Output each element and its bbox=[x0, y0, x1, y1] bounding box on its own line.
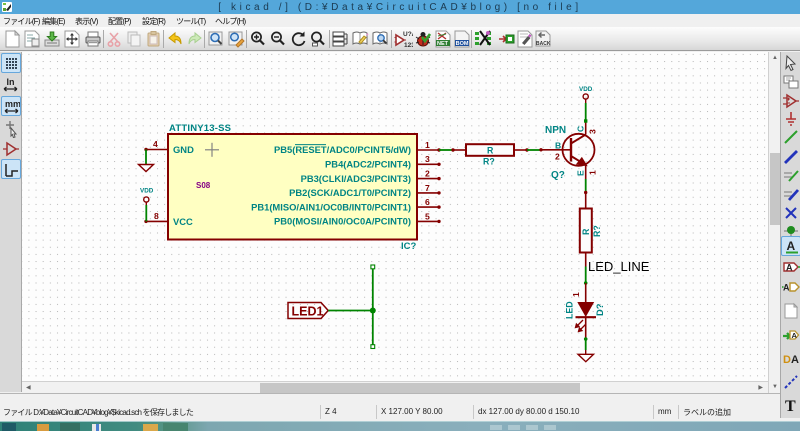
wire pin1 to R1 bbox=[439, 149, 453, 151]
junction bbox=[370, 308, 376, 314]
svg-text:LED1: LED1 bbox=[292, 305, 324, 319]
wire VDD to collector bbox=[585, 103, 587, 121]
ground PWR1 at pin4 bbox=[145, 150, 147, 165]
svg-text:NPN: NPN bbox=[545, 125, 566, 136]
svg-text:PB1(MISO/AIN1/OC0B/INT0/PCINT1: PB1(MISO/AIN1/OC0B/INT0/PCINT1) bbox=[251, 201, 411, 212]
svg-text:3: 3 bbox=[425, 154, 430, 164]
svg-text:A: A bbox=[792, 331, 798, 340]
left toolbar bbox=[0, 52, 22, 392]
IC U1 ATTINY13-SS body bbox=[168, 134, 417, 240]
wire VDD to pin8 bbox=[145, 205, 147, 221]
svg-text:PB5(RESET/ADC0/PCINT5/dW): PB5(RESET/ADC0/PCINT5/dW) bbox=[274, 144, 411, 155]
svg-text:D: D bbox=[783, 354, 791, 366]
wire LED1 to vertical net bbox=[328, 310, 373, 312]
svg-text:1: 1 bbox=[425, 140, 430, 150]
svg-text:2: 2 bbox=[555, 152, 560, 162]
svg-text:LED_LINE: LED_LINE bbox=[588, 259, 650, 274]
svg-text:123: 123 bbox=[404, 42, 413, 49]
svg-text:Q?: Q? bbox=[551, 170, 565, 181]
svg-text:B: B bbox=[555, 141, 561, 151]
svg-text:IC?: IC? bbox=[401, 241, 417, 252]
svg-text:A: A bbox=[786, 263, 793, 273]
RESET overline bbox=[295, 144, 326, 146]
pin 4 (GND) bbox=[146, 149, 168, 151]
svg-text:PB3(CLKI/ADC3/PCINT3): PB3(CLKI/ADC3/PCINT3) bbox=[301, 173, 411, 184]
resistor R2 body bbox=[580, 209, 592, 253]
svg-text:LED: LED bbox=[565, 301, 575, 319]
svg-text:5: 5 bbox=[425, 211, 430, 221]
title bar bbox=[0, 0, 800, 14]
transistor Q1 NPN bbox=[541, 121, 595, 179]
right pins 1,3,2,7,6,5 bbox=[417, 150, 439, 221]
svg-text:ATTINY13-SS: ATTINY13-SS bbox=[169, 123, 231, 134]
svg-text:BACK: BACK bbox=[536, 41, 551, 47]
svg-text:mm: mm bbox=[5, 99, 21, 109]
menu bar bbox=[0, 14, 800, 27]
resistor R1 leads bbox=[453, 149, 527, 151]
svg-text:1: 1 bbox=[571, 292, 581, 297]
svg-text:6: 6 bbox=[425, 197, 430, 207]
svg-text:R?: R? bbox=[483, 157, 495, 167]
svg-text:NET: NET bbox=[437, 41, 449, 47]
svg-text:4: 4 bbox=[153, 139, 158, 149]
horizontal scrollbar bbox=[22, 381, 768, 393]
vertical wire bbox=[372, 267, 374, 347]
global label LED1 bbox=[288, 303, 328, 319]
resistor R1 body bbox=[466, 144, 514, 156]
taskbar strip bbox=[0, 421, 800, 431]
svg-text:In: In bbox=[7, 77, 15, 87]
wire LED to GND bbox=[585, 339, 587, 350]
pin names PB5..PB0 bbox=[251, 144, 411, 226]
open wire end top bbox=[371, 265, 375, 269]
ground PWR2 bbox=[585, 350, 587, 354]
svg-text:A: A bbox=[791, 354, 799, 366]
svg-text:T: T bbox=[785, 398, 796, 415]
svg-text:R: R bbox=[581, 228, 591, 235]
wire emitter to R2 bbox=[585, 179, 587, 193]
svg-text:A: A bbox=[787, 239, 796, 253]
svg-text:2: 2 bbox=[425, 169, 430, 179]
status bar bbox=[0, 393, 780, 421]
svg-text:PB4(ADC2/PCINT4): PB4(ADC2/PCINT4) bbox=[325, 159, 411, 170]
svg-text:VCC: VCC bbox=[173, 216, 193, 227]
svg-text:8: 8 bbox=[154, 211, 159, 221]
LED emission arrows bbox=[576, 320, 587, 332]
pin 8 (VCC) bbox=[146, 220, 168, 222]
svg-text:3: 3 bbox=[588, 129, 598, 134]
svg-text:VDD: VDD bbox=[140, 188, 154, 195]
svg-text:VDD: VDD bbox=[579, 86, 593, 93]
cursor crosshair bbox=[205, 143, 219, 157]
svg-text:D?: D? bbox=[594, 303, 605, 316]
svg-text:PB0(MOSI/AIN0/OC0A/PCINT0): PB0(MOSI/AIN0/OC0A/PCINT0) bbox=[274, 216, 411, 227]
canvas bbox=[22, 52, 768, 381]
svg-text:R: R bbox=[487, 146, 494, 156]
svg-text:U?A: U?A bbox=[403, 31, 413, 38]
open wire end bottom bbox=[371, 345, 375, 349]
svg-text:PB2(SCK/ADC1/T0/PCINT2): PB2(SCK/ADC1/T0/PCINT2) bbox=[289, 187, 411, 198]
svg-text:7: 7 bbox=[425, 183, 430, 193]
LED D1 bbox=[585, 283, 587, 302]
wire R2 to LED bbox=[585, 267, 587, 284]
svg-text:R?: R? bbox=[592, 225, 602, 237]
main toolbar bbox=[0, 27, 800, 51]
svg-text:C: C bbox=[576, 126, 586, 132]
svg-text:E: E bbox=[576, 170, 586, 176]
svg-text:A: A bbox=[783, 283, 790, 293]
svg-text:GND: GND bbox=[173, 144, 194, 155]
svg-text:BOM: BOM bbox=[455, 41, 468, 47]
wire R1 to Q1 base bbox=[527, 149, 541, 151]
vertical scrollbar bbox=[768, 52, 780, 393]
right toolbar bbox=[780, 52, 800, 418]
svg-text:S08: S08 bbox=[196, 181, 211, 190]
resistor R2 leads bbox=[585, 193, 587, 267]
svg-text:1: 1 bbox=[588, 170, 598, 175]
